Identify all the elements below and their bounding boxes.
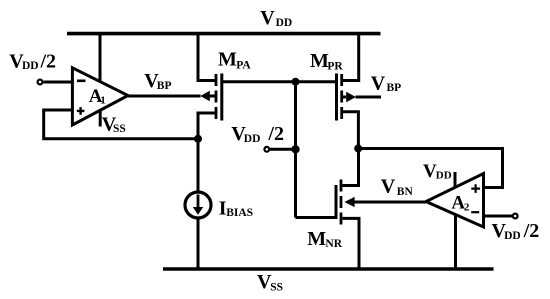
wire drain node to A2 plus input [358, 149, 502, 188]
VDD rail [67, 32, 381, 36]
transistor M_PA source wire from VDD [198, 34, 215, 81]
svg-text:SS: SS [113, 123, 126, 135]
A1 VSS supply stub [99, 110, 102, 127]
feedback wire A1 plus input [44, 110, 198, 139]
svg-text:M: M [218, 49, 237, 71]
junction dot node VBP-drain [194, 135, 202, 143]
A2 negative supply wire to VSS [454, 215, 457, 269]
svg-text:/2: /2 [523, 220, 540, 242]
junction dot M_PR drain node [354, 145, 362, 153]
svg-text:/2: /2 [40, 50, 57, 72]
svg-text:BP: BP [157, 80, 172, 92]
wire middle terminal to node column [270, 148, 294, 151]
svg-text:1: 1 [100, 95, 106, 107]
VDD/2 middle terminal circle [264, 147, 269, 152]
svg-text:DD: DD [22, 60, 39, 72]
svg-text:SS: SS [270, 281, 283, 293]
M_PA channel bars [215, 74, 218, 119]
junction dot VDD/2 node [291, 145, 299, 153]
svg-text:PA: PA [236, 59, 251, 71]
svg-text:DD: DD [504, 230, 521, 242]
svg-text:PR: PR [327, 60, 343, 72]
M_PA drain wire down to node [198, 113, 215, 191]
svg-text:M: M [307, 228, 326, 250]
svg-text:NR: NR [325, 238, 342, 250]
M_PA gate arrow (PMOS, pointing out) [200, 91, 210, 101]
A2 inverting input wire [485, 215, 512, 218]
VSS rail [163, 267, 494, 271]
svg-text:DD: DD [244, 133, 261, 145]
M_PA backbone (gate line) [220, 74, 223, 121]
M_PR source wire to VDD [343, 34, 359, 81]
M_NR channel bars [340, 180, 343, 225]
A1 plus mark [77, 107, 85, 115]
A2 minus mark [471, 211, 479, 213]
svg-text:DD: DD [276, 17, 293, 29]
svg-text:V: V [371, 73, 386, 95]
op-amp A2 triangle [426, 174, 484, 228]
svg-text:DD: DD [436, 169, 452, 181]
M_PR gate arrow (PMOS, pointing out) and VBP stub [343, 96, 346, 99]
transistor M_PR backbone (gate line) [335, 74, 338, 121]
output terminal circle (VDD/2 right) [513, 214, 518, 219]
svg-text:V: V [260, 7, 275, 29]
svg-text:BP: BP [387, 82, 402, 94]
wire terminal to A1 inverting input [44, 81, 73, 84]
A1 output wire VBP [128, 95, 201, 98]
current source IBIAS circle [185, 192, 211, 218]
M_PR drain wire down [343, 112, 358, 149]
transistor M_NR backbone (gate line) [335, 185, 338, 219]
svg-text:2: 2 [464, 201, 470, 213]
M_PR channel bars [340, 74, 343, 119]
A2 VDD supply stub [454, 172, 457, 188]
M_NR source wire down to VSS [343, 218, 360, 269]
svg-text:/2: /2 [267, 123, 284, 145]
svg-text:BN: BN [397, 186, 414, 198]
gate bus wire MPA-MPR [222, 80, 337, 83]
A1 minus mark [77, 80, 86, 83]
A2 plus mark [471, 184, 480, 193]
svg-text:BIAS: BIAS [226, 207, 253, 219]
input terminal circle (VDD/2) [38, 80, 43, 85]
svg-text:V: V [381, 176, 396, 198]
M_NR gate arrow (NMOS, pointing in) and wire from A2 [344, 197, 354, 207]
junction dot gate bus [292, 78, 300, 86]
A1 positive supply wire to VDD [99, 34, 102, 82]
wire IBIAS to VSS [197, 218, 200, 269]
IBIAS arrow [197, 195, 200, 208]
node column wire down from gate bus [296, 82, 337, 218]
M_NR drain wire up to node [343, 149, 359, 186]
svg-text:M: M [310, 50, 329, 72]
op-amp A1 triangle [72, 68, 128, 125]
